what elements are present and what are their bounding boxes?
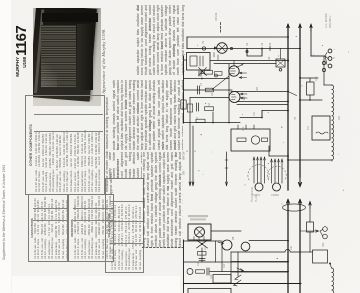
- mains switch S3 box: [276, 59, 285, 67]
- fuse stem: [323, 56, 325, 85]
- svg-text:TO CHASSIS: TO CHASSIS: [251, 187, 254, 202]
- lower-left text block: [142, 152, 183, 247]
- detector step wire: [240, 111, 262, 118]
- dropper tap wire: [288, 159, 332, 161]
- svg-text:R18: R18: [204, 245, 207, 250]
- svg-text:L: L: [333, 48, 336, 50]
- svg-text:V1: V1: [201, 40, 205, 44]
- mains plug pin 3: [328, 64, 332, 68]
- svg-text:A.C. MAINS: A.C. MAINS: [324, 13, 328, 28]
- heater tap circle: [202, 47, 205, 50]
- svg-text:200-250 V: 200-250 V: [328, 15, 332, 28]
- up arrow HT2: [287, 200, 290, 206]
- IF secondary wire: [237, 104, 288, 106]
- loop terminal circle: [246, 50, 248, 52]
- svg-text:V2: V2: [245, 42, 249, 46]
- AVC line: [184, 78, 230, 80]
- block resistor b: [262, 138, 268, 141]
- svg-text:S3: S3: [267, 56, 271, 60]
- aux wire continues: [309, 232, 311, 252]
- cathode stem: [189, 98, 191, 123]
- OTHER COMPONENTS table: [25, 95, 105, 195]
- grid cap C5: [199, 71, 201, 76]
- svg-text:C21: C21: [253, 111, 256, 116]
- V2 grid arrows: [240, 93, 247, 99]
- block inner circle: [251, 136, 259, 144]
- V6 output arrows: [237, 268, 244, 272]
- lower HT bus: [287, 200, 289, 293]
- volume resistor R7: [196, 119, 205, 122]
- mains aerial wire: [226, 152, 228, 185]
- surge resistor R20: [307, 82, 315, 95]
- cathode bus: [230, 252, 232, 284]
- svg-text:PLUG: PLUG: [255, 195, 258, 202]
- mains lead arrow L: [287, 24, 290, 31]
- svg-text:V3: V3: [260, 42, 264, 46]
- lower agc wire: [231, 261, 288, 263]
- transformer terminals: [194, 237, 204, 241]
- pin arrows B: [271, 159, 284, 162]
- svg-text:C24: C24: [242, 126, 245, 131]
- heater link loop C30: [247, 49, 262, 57]
- header 1167: [13, 24, 33, 56]
- svg-text:R7: R7: [196, 116, 199, 120]
- grid wires into V1: [239, 72, 246, 74]
- V6 stem: [237, 252, 239, 276]
- transformer circle: [195, 227, 205, 237]
- svg-text:R21: R21: [338, 115, 341, 120]
- bypass cap C8: [197, 103, 199, 111]
- svg-text:C7: C7: [200, 82, 203, 86]
- svg-text:C6 C11: C6 C11: [214, 12, 218, 21]
- left rail lower: [183, 240, 185, 293]
- base dashed circle A: [248, 165, 269, 180]
- HT rail lower: [184, 283, 302, 285]
- AVC junction dot: [201, 78, 203, 80]
- svg-text:MW LW: MW LW: [183, 151, 186, 160]
- right resistor box R22: [313, 250, 328, 263]
- V5 anode wire: [249, 240, 288, 242]
- feed dot: [299, 99, 301, 101]
- RESISTORS table: [68, 194, 114, 262]
- base dashed circle B: [267, 166, 286, 180]
- secondary wire to rectifier: [211, 230, 241, 232]
- lamp lead dot left: [215, 47, 217, 50]
- R20 bottom lead: [309, 95, 311, 100]
- bias wire: [184, 261, 289, 263]
- V5 arrows: [218, 242, 223, 245]
- mains lead arrow M: [299, 24, 302, 31]
- detector block box: [231, 129, 270, 151]
- block to HT wire: [269, 146, 288, 156]
- VALVE ANALYSIS table: [105, 178, 144, 273]
- rail left end wire: [186, 37, 188, 49]
- screen resistor R2: [206, 88, 214, 92]
- fuse to dropper wire: [324, 84, 332, 86]
- cathode wire: [190, 97, 229, 99]
- svg-text:V1: V1: [240, 62, 244, 66]
- svg-text:C27: C27: [223, 263, 226, 268]
- scan speckles: [239, 60, 240, 61]
- white top margin of portrait sheet (left margin of target): [0, 0, 11, 293]
- coil inner winding: [190, 56, 197, 66]
- svg-text:V2: V2: [242, 96, 246, 100]
- up arrow mains2: [299, 200, 302, 206]
- cap C27: [207, 268, 209, 275]
- heater rail bottom wire: [187, 48, 300, 50]
- R20 top lead: [309, 78, 311, 82]
- reservoir cap C28: [199, 259, 205, 261]
- svg-text:SW: SW: [183, 170, 186, 175]
- cathode resistor R3: [181, 100, 186, 109]
- body text column under photo: [112, 80, 183, 150]
- box lead down-left: [184, 59, 187, 61]
- svg-text:R2: R2: [211, 92, 214, 96]
- fuse circles: [322, 61, 325, 64]
- V2 IF amp envelope: [229, 92, 240, 103]
- transformer label smudge: [188, 215, 208, 217]
- dropper bottom: [331, 160, 333, 161]
- extra osc parts: [214, 53, 218, 61]
- footnote under other components: [105, 97, 113, 195]
- HT negative bus vertical: [287, 25, 289, 191]
- primary branch vertical: [215, 241, 217, 262]
- TH1 inner marks: [316, 132, 328, 134]
- pin arrows A: [253, 157, 266, 160]
- smoothing stem: [201, 248, 203, 262]
- mains plug pin 1: [328, 49, 332, 53]
- svg-text:V5: V5: [231, 236, 235, 240]
- loop junction dot: [261, 48, 263, 50]
- spigot circle B: [273, 183, 281, 191]
- stem resistor R5: [187, 104, 192, 112]
- svg-text:C28: C28: [197, 261, 200, 266]
- V1 frequency changer envelope: [229, 66, 239, 76]
- aerial arrows: [189, 182, 194, 186]
- block top leads: [238, 125, 254, 129]
- svg-text:C18: C18: [255, 87, 259, 92]
- AGC long wire: [262, 110, 288, 112]
- lower coil top lead: [330, 264, 332, 269]
- svg-text:HT: HT: [294, 116, 297, 120]
- spigot circle A: [255, 183, 263, 191]
- caption: [101, 12, 109, 110]
- tick marks: [225, 160, 228, 168]
- dial lamp MES: [217, 43, 228, 54]
- lower coil: [332, 268, 334, 293]
- output box lower: [188, 289, 231, 293]
- chassis down arrow on mains bus: [299, 177, 302, 187]
- V1 grid diagonal to coil: [212, 76, 229, 90]
- svg-text:R16: R16: [210, 274, 213, 279]
- det wire lower with hop: [231, 249, 300, 252]
- HT feed wire: [300, 99, 322, 101]
- V2 anode wire: [237, 101, 288, 103]
- switch stem: [280, 49, 282, 60]
- svg-text:C31: C31: [290, 245, 293, 250]
- small block right of valve table: [108, 152, 142, 178]
- osc grid resistor R4: [205, 107, 214, 111]
- V1 electrodes: [231, 69, 236, 74]
- HT branch vertical: [221, 241, 223, 272]
- heater tick V4: [269, 47, 271, 51]
- screen cap C7: [198, 86, 200, 94]
- V1 cathode vertical: [228, 64, 230, 123]
- svg-text:A: A: [186, 150, 189, 152]
- V1 anode lead: [233, 61, 235, 66]
- series resistor on wire B: [215, 72, 223, 76]
- svg-text:V4 B8A: V4 B8A: [271, 194, 279, 197]
- header MURPHY U198: [15, 57, 30, 80]
- pins B: [272, 159, 283, 183]
- block resistor a: [237, 138, 246, 141]
- lower wire 272: [232, 271, 288, 273]
- R20 top wire: [300, 77, 318, 79]
- mains transformer box: [188, 224, 211, 240]
- R22 dot: [329, 263, 331, 265]
- its arrow: [226, 182, 228, 186]
- osc anode wire B: [214, 63, 276, 65]
- output components circle: [187, 269, 193, 275]
- plug leads: [325, 53, 328, 65]
- mains plug pin 2: [328, 57, 332, 61]
- junction dots on bus: [212, 122, 214, 124]
- aux wire down: [309, 208, 311, 222]
- bus junction dots: [287, 91, 289, 93]
- right lower column: [136, 5, 185, 75]
- osc anode wire A: [210, 60, 288, 62]
- output transformer small box: [213, 275, 231, 284]
- lamp feed wire: [300, 230, 319, 232]
- det junction dot: [261, 117, 263, 119]
- CAPACITORS table: [28, 194, 68, 262]
- svg-text:V4: V4: [268, 42, 272, 46]
- wire C5 to grid: [201, 73, 205, 75]
- link wire: [300, 251, 313, 253]
- tap circle right of lamp: [230, 47, 232, 49]
- white left margin of portrait (bottom of target, left half): [12, 276, 180, 293]
- heater rail top wire: [187, 36, 288, 38]
- lower bus wire: [184, 122, 241, 124]
- supplement line: [3, 140, 10, 260]
- X cluster under coil box: [199, 68, 207, 76]
- IF transformer primary line: [231, 91, 288, 93]
- coupling stem: [212, 112, 214, 123]
- svg-text:N: N: [333, 57, 336, 59]
- oscillator coil box L5 L6: [187, 53, 211, 71]
- mains live bus vertical: [299, 25, 301, 178]
- grid resistor R1: [205, 71, 213, 75]
- pins A: [254, 157, 265, 183]
- svg-text:R22: R22: [322, 242, 325, 247]
- svg-text:TH: TH: [306, 126, 310, 130]
- thermistor box TH1: [312, 116, 330, 140]
- primary wire: [184, 240, 222, 242]
- twisted pair junction: [197, 240, 208, 248]
- output grid wire: [210, 271, 288, 273]
- chassis left rail: [183, 56, 185, 123]
- svg-text:R20: R20: [315, 76, 318, 81]
- screen feed wire: [184, 89, 233, 91]
- V5 rectifier envelope: [222, 240, 232, 250]
- third mains wire vertical: [310, 25, 312, 57]
- switch contact dot: [279, 69, 282, 72]
- mains lead arrow N: [310, 24, 312, 31]
- dropper resistor R21 coil: [332, 85, 334, 160]
- resistor R16: [196, 270, 205, 273]
- lamp leads: [320, 230, 323, 237]
- wire to plug: [311, 55, 325, 57]
- junction dots lower: [287, 261, 289, 263]
- V2 electrodes: [232, 95, 237, 100]
- V1 anode diagonal: [237, 64, 245, 68]
- cable grommet ellipse: [283, 204, 306, 211]
- coil inner core lines: [200, 56, 203, 66]
- gang coupling dashed line: [220, 23, 222, 34]
- pilot lamp circles right: [323, 227, 328, 232]
- photo of receiver: [33, 8, 101, 106]
- smoothing resistor R18: [198, 252, 207, 256]
- aerial lead wires: [190, 123, 193, 186]
- speaker arrows: [234, 280, 241, 286]
- lower mains bus: [299, 200, 301, 293]
- up arrow aux: [309, 202, 311, 208]
- column rule: [142, 246, 183, 249]
- svg-text:E: E: [194, 150, 197, 152]
- svg-text:R4: R4: [208, 102, 211, 106]
- aux component box: [307, 222, 314, 232]
